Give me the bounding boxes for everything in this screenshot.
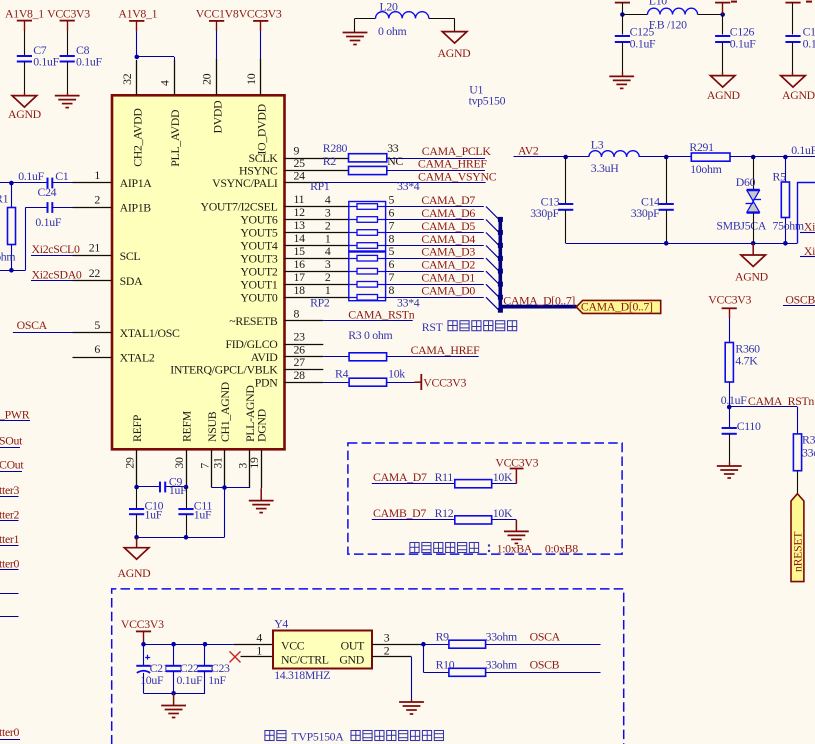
svg-text:33*4: 33*4 bbox=[397, 179, 420, 193]
note address select (chinese) bbox=[410, 542, 578, 556]
svg-text:13: 13 bbox=[294, 218, 306, 232]
power rail (L10 right) bbox=[715, 1, 737, 15]
svg-text:YOUT3: YOUT3 bbox=[240, 251, 278, 265]
svg-text:INTERQ/GPCL/VBLK: INTERQ/GPCL/VBLK bbox=[170, 363, 278, 377]
svg-text:GND: GND bbox=[339, 653, 364, 667]
wire CAMA_HREF (top) bbox=[387, 170, 485, 172]
svg-text:tter0: tter0 bbox=[0, 725, 20, 739]
resistor RP2 element 1 bbox=[325, 244, 395, 261]
no-connect X (pin1) bbox=[230, 651, 241, 662]
svg-text:R2: R2 bbox=[323, 154, 337, 168]
pin 32 bbox=[120, 60, 137, 95]
svg-text:Xi2cSCL0: Xi2cSCL0 bbox=[32, 242, 80, 256]
resistor R1 bbox=[0, 183, 16, 270]
power A1V8_1 (left) bbox=[5, 7, 44, 55]
pin 5 bbox=[73, 318, 112, 333]
node tter0 (bottom) bbox=[0, 725, 20, 739]
svg-text:CAMA_D3: CAMA_D3 bbox=[421, 245, 475, 259]
node Xi2cSDA0 bbox=[31, 268, 82, 282]
pin 17 bbox=[285, 270, 349, 285]
ground earth (caps) bbox=[161, 693, 186, 717]
svg-text:10ohm: 10ohm bbox=[690, 162, 721, 176]
wire crystal gnd bus bbox=[144, 693, 206, 695]
svg-text:AIP1A: AIP1A bbox=[120, 176, 153, 190]
resistor R3 bbox=[323, 328, 478, 361]
svg-text:0.1u: 0.1u bbox=[803, 36, 815, 50]
pin 16 bbox=[285, 257, 349, 272]
svg-text:R3 0 ohm: R3 0 ohm bbox=[348, 328, 392, 342]
ground earth (under C8) bbox=[55, 96, 80, 108]
svg-text:tter0: tter0 bbox=[0, 557, 20, 571]
svg-text:0:0xB8: 0:0xB8 bbox=[545, 542, 578, 556]
bus entry D5 bbox=[486, 233, 499, 246]
svg-text:D60: D60 bbox=[736, 175, 756, 189]
resistor RP2 element 4 bbox=[325, 283, 395, 300]
resistor R361 bbox=[793, 407, 815, 494]
svg-text:OSCB: OSCB bbox=[530, 657, 560, 671]
svg-text:10K: 10K bbox=[493, 506, 513, 520]
svg-text:1: 1 bbox=[94, 168, 100, 182]
svg-text:0.1uF: 0.1uF bbox=[791, 143, 815, 157]
wire L3-C14 bbox=[639, 156, 666, 158]
svg-text:32: 32 bbox=[120, 73, 134, 85]
svg-text:Xin: Xin bbox=[804, 220, 815, 234]
connector (right edge) bbox=[797, 182, 815, 243]
junction REFP bbox=[134, 485, 139, 490]
pin 22 bbox=[73, 266, 112, 281]
resistor RP1 element 3 bbox=[325, 218, 395, 235]
wire R5-edge bbox=[785, 156, 815, 158]
junction C11 bottom bbox=[184, 535, 189, 540]
bus entry D0 bbox=[486, 297, 499, 310]
wire Y4 pin4 bbox=[234, 631, 273, 645]
wire crystal vcc bus bbox=[144, 644, 234, 646]
svg-text:2: 2 bbox=[325, 270, 331, 284]
ground AGND (IC bottom) bbox=[118, 537, 152, 580]
resistor RP1 element 4 bbox=[325, 231, 395, 248]
svg-text:8: 8 bbox=[294, 307, 300, 321]
resistor RP1 element 2 bbox=[325, 205, 395, 222]
svg-text:7: 7 bbox=[389, 270, 395, 284]
resistor R12 bbox=[435, 506, 517, 524]
svg-text:CAMA_D2: CAMA_D2 bbox=[421, 258, 475, 272]
resistor RP1 element 1 bbox=[325, 192, 395, 209]
junction R5 bottom bbox=[783, 241, 788, 246]
capacitor C11 bbox=[178, 487, 212, 537]
svg-text:5: 5 bbox=[389, 244, 395, 258]
svg-text:VCC1V8: VCC1V8 bbox=[196, 7, 239, 21]
capacitor C7 bbox=[17, 43, 60, 95]
bus CAMA_D[0..7] vertical bbox=[498, 219, 502, 307]
svg-text:R1: R1 bbox=[0, 191, 9, 205]
bus junction D2 bbox=[498, 282, 503, 287]
svg-text:YOUT1: YOUT1 bbox=[240, 278, 278, 292]
svg-text:21: 21 bbox=[89, 241, 101, 255]
pin 24 bbox=[285, 169, 324, 183]
svg-text:0 ohm: 0 ohm bbox=[378, 24, 406, 38]
svg-text:_PWR: _PWR bbox=[0, 408, 30, 422]
ground earth (DGND) bbox=[249, 488, 274, 512]
ground AGND (L20 right) bbox=[438, 32, 472, 61]
svg-text:5: 5 bbox=[94, 318, 100, 332]
svg-text:REFP: REFP bbox=[130, 414, 144, 442]
svg-text:YOUT6: YOUT6 bbox=[240, 213, 278, 227]
junction R1 bottom bbox=[9, 268, 14, 273]
svg-text:tter1: tter1 bbox=[0, 532, 20, 546]
pin 6 bbox=[73, 342, 112, 357]
pin 3 bbox=[235, 450, 249, 488]
resistor R360 bbox=[725, 341, 760, 407]
pin 15 bbox=[285, 244, 349, 259]
pin 29 bbox=[122, 450, 136, 487]
svg-text:L20: L20 bbox=[380, 0, 399, 14]
pin 7 bbox=[197, 450, 211, 488]
bus entry D7 bbox=[486, 207, 499, 220]
power A1V8_1 (pins 32/4) bbox=[118, 7, 157, 57]
pin 10 bbox=[244, 58, 261, 95]
node CAMA_D7 (R11) bbox=[372, 470, 455, 484]
node Xi2cSCL0 bbox=[31, 242, 80, 256]
svg-text:0.1uF: 0.1uF bbox=[18, 169, 44, 183]
svg-text:VCC3V3: VCC3V3 bbox=[239, 7, 282, 21]
svg-text:330pF: 330pF bbox=[530, 206, 559, 220]
pin 14 bbox=[285, 231, 349, 245]
svg-text:0.1uF: 0.1uF bbox=[35, 215, 61, 229]
svg-text:22: 22 bbox=[89, 266, 101, 280]
node tter0 bbox=[0, 557, 20, 571]
capacitor C9 bbox=[137, 474, 187, 497]
junction L10 right bbox=[720, 12, 725, 17]
pin 23 bbox=[285, 330, 324, 345]
resistor R11 bbox=[435, 470, 517, 488]
svg-text:AIP1B: AIP1B bbox=[120, 201, 152, 215]
wire L20 to AGND bbox=[429, 18, 455, 31]
pin 1 bbox=[73, 168, 112, 183]
capacitor C23 bbox=[197, 644, 230, 693]
svg-text:4: 4 bbox=[325, 192, 331, 206]
junction CH1_AGND bbox=[222, 485, 227, 490]
wire AV2-L3 bbox=[566, 156, 589, 158]
svg-text:nRESET: nRESET bbox=[791, 531, 805, 572]
ground earth (under C125) bbox=[609, 75, 634, 77]
svg-text:6: 6 bbox=[389, 205, 395, 219]
resistor pack RP1 designator bbox=[310, 179, 420, 193]
port CAMA_D[0..7] bbox=[576, 299, 660, 313]
svg-text:XTAL2: XTAL2 bbox=[120, 350, 155, 364]
svg-text:75ohm: 75ohm bbox=[773, 218, 804, 232]
svg-text:75ohm: 75ohm bbox=[0, 250, 15, 264]
svg-text:30: 30 bbox=[172, 457, 186, 469]
pin 18 bbox=[285, 283, 349, 298]
svg-text:Xin: Xin bbox=[804, 244, 815, 258]
bus entry D4 bbox=[486, 246, 499, 259]
pin 26 bbox=[285, 342, 324, 356]
svg-text:CAMA_D6: CAMA_D6 bbox=[421, 206, 475, 220]
resistor R9 bbox=[423, 629, 600, 648]
svg-text:10: 10 bbox=[244, 73, 258, 85]
svg-text:CAMA_D[0..7]: CAMA_D[0..7] bbox=[503, 293, 575, 307]
svg-text:YOUT0: YOUT0 bbox=[240, 291, 278, 305]
node OSCB (right) bbox=[783, 293, 815, 307]
junction C14 bottom bbox=[664, 241, 669, 246]
svg-text:DVDD: DVDD bbox=[210, 100, 224, 134]
svg-text:YOUT2: YOUT2 bbox=[240, 264, 278, 278]
svg-text:A1V8_1: A1V8_1 bbox=[118, 7, 157, 21]
resistor pack RP2 designator bbox=[310, 295, 420, 309]
svg-text:3.3uH: 3.3uH bbox=[591, 161, 619, 175]
bus CAMA_D[0..7] horizontal bbox=[499, 305, 577, 309]
svg-text:L3: L3 bbox=[591, 138, 604, 152]
ground earth (Y4 gnd) bbox=[399, 657, 424, 714]
svg-text:VCC: VCC bbox=[281, 638, 305, 652]
crystal Y4 body bbox=[273, 616, 372, 682]
pin 11 bbox=[285, 192, 349, 206]
junction C13 top bbox=[563, 155, 568, 160]
pin 19 bbox=[247, 450, 262, 488]
svg-text:TVP5150A: TVP5150A bbox=[292, 730, 345, 744]
svg-text:3: 3 bbox=[325, 257, 331, 271]
junction C23 bbox=[203, 642, 208, 647]
pin 27 bbox=[285, 355, 324, 370]
svg-text:C1: C1 bbox=[55, 169, 69, 183]
junction C14 top bbox=[664, 155, 669, 160]
svg-text:VCC3V3: VCC3V3 bbox=[495, 455, 538, 469]
svg-text:18: 18 bbox=[294, 283, 306, 297]
node tter1 bbox=[0, 532, 20, 546]
svg-text:OSCA: OSCA bbox=[530, 629, 561, 643]
capacitor C21 bbox=[136, 644, 168, 693]
ground earth (R12) bbox=[504, 520, 529, 544]
svg-text:8: 8 bbox=[389, 283, 395, 297]
svg-text:Y4: Y4 bbox=[274, 616, 288, 630]
wire Y4 pin1 bbox=[241, 643, 274, 657]
capacitor C10 bbox=[129, 487, 164, 537]
wire CAMA_D2 bbox=[386, 271, 484, 273]
junction A1V8 bbox=[135, 55, 140, 60]
svg-text:tter2: tter2 bbox=[0, 507, 20, 521]
node Xin2 bbox=[800, 244, 815, 258]
capacitor C125 bbox=[615, 15, 656, 77]
svg-text:CAMA_HREF: CAMA_HREF bbox=[411, 343, 480, 357]
wire D60-R5 bbox=[753, 156, 785, 158]
bus entry D2 bbox=[486, 271, 499, 284]
svg-text:15: 15 bbox=[294, 244, 306, 258]
capacitor C126 bbox=[715, 15, 756, 76]
pin 12 bbox=[285, 205, 349, 219]
inductor L20 bbox=[376, 0, 429, 38]
note RST reset circuit (chinese) bbox=[422, 320, 517, 334]
svg-text:0.1uF: 0.1uF bbox=[76, 55, 102, 69]
pin 25 bbox=[285, 156, 349, 170]
wire CAMA_D4 bbox=[386, 245, 484, 247]
capacitor C8 bbox=[60, 43, 103, 95]
pin 2 bbox=[73, 193, 112, 208]
svg-text:11: 11 bbox=[294, 192, 305, 206]
capacitor C14 bbox=[631, 157, 674, 243]
svg-text:L10: L10 bbox=[649, 0, 668, 8]
wire CH1 down bbox=[224, 488, 226, 538]
ground AGND (AV2) bbox=[735, 243, 769, 283]
svg-text:NC: NC bbox=[387, 154, 403, 168]
svg-text:0.1uF: 0.1uF bbox=[33, 55, 59, 69]
svg-text:F.B /120: F.B /120 bbox=[649, 17, 687, 31]
resistor pack RP1 body bbox=[349, 202, 386, 252]
power VCC3V3 (R11) bbox=[495, 455, 538, 483]
pin 4 bbox=[157, 60, 174, 95]
resistor RP2 element 3 bbox=[325, 270, 395, 287]
svg-text:tter3: tter3 bbox=[0, 483, 20, 497]
svg-text:19: 19 bbox=[247, 457, 261, 469]
resistor R291 bbox=[666, 140, 753, 176]
svg-text:16: 16 bbox=[294, 257, 306, 271]
pin 21 bbox=[73, 241, 112, 256]
bus junction D5 bbox=[498, 243, 503, 248]
junction D60 bottom bbox=[751, 241, 756, 246]
bus junction D1 bbox=[498, 295, 503, 300]
capacitor C127 bbox=[785, 24, 815, 75]
svg-text:PLL_AVDD: PLL_AVDD bbox=[168, 109, 182, 167]
resistor R10 bbox=[423, 644, 600, 676]
wire Y4 pin3 bbox=[372, 631, 423, 645]
bus junction D3 bbox=[498, 269, 503, 274]
pin 30 bbox=[172, 450, 187, 487]
node OSCA bbox=[13, 318, 73, 332]
capacitor C13 bbox=[530, 157, 573, 243]
wire CAMA_D3 bbox=[386, 258, 484, 260]
svg-text:10k: 10k bbox=[388, 366, 405, 380]
svg-text:AGND: AGND bbox=[438, 46, 472, 60]
svg-text:VCC3V3: VCC3V3 bbox=[708, 293, 751, 307]
svg-text:4: 4 bbox=[157, 80, 171, 86]
ground earth (C110) bbox=[717, 465, 742, 467]
svg-text:24: 24 bbox=[294, 169, 306, 183]
node AV2 bbox=[514, 143, 566, 157]
svg-text:RST: RST bbox=[422, 320, 444, 334]
wire CAMA_D0 bbox=[386, 297, 484, 299]
resistor RP2 element 2 bbox=[325, 257, 395, 274]
svg-text:SDA: SDA bbox=[120, 274, 143, 288]
bus entry D6 bbox=[486, 220, 499, 233]
node CAMA_RSTn (right) bbox=[721, 393, 815, 408]
power VCC3V3 (pin 10) bbox=[239, 7, 282, 59]
junction R1 top bbox=[9, 181, 14, 186]
svg-text:VCC3V3: VCC3V3 bbox=[423, 375, 466, 389]
svg-text:31: 31 bbox=[210, 457, 224, 469]
svg-text:YOUT7/I2CSEL: YOUT7/I2CSEL bbox=[200, 200, 277, 214]
svg-text:0.1uF: 0.1uF bbox=[721, 393, 747, 407]
svg-text:C24: C24 bbox=[38, 185, 57, 199]
svg-text:12: 12 bbox=[294, 205, 306, 219]
svg-text:CAMB_D7: CAMB_D7 bbox=[373, 506, 426, 520]
svg-text:R12: R12 bbox=[435, 506, 454, 520]
svg-text:330pF: 330pF bbox=[631, 206, 660, 220]
wire bottom-left bbox=[0, 270, 25, 272]
svg-text:CAMA_D7: CAMA_D7 bbox=[373, 470, 427, 484]
wire CAMA_PCLK bbox=[387, 158, 485, 160]
wire AIP1A input bbox=[0, 182, 48, 184]
svg-text:RP1: RP1 bbox=[310, 179, 330, 193]
svg-text:33ohm: 33ohm bbox=[486, 657, 517, 671]
wire CAMA_VSYNC bbox=[323, 182, 485, 184]
note shared crystal (chinese) bbox=[265, 730, 444, 744]
svg-text:AGND: AGND bbox=[118, 566, 152, 580]
pin 13 bbox=[285, 218, 349, 232]
bus junction D7 bbox=[498, 217, 503, 222]
svg-text:1uF: 1uF bbox=[194, 508, 212, 522]
svg-text:IO_DVDD: IO_DVDD bbox=[254, 103, 268, 154]
svg-text:~RESETB: ~RESETB bbox=[229, 314, 278, 328]
svg-text:6: 6 bbox=[389, 257, 395, 271]
svg-text:CAMA_D1: CAMA_D1 bbox=[421, 271, 475, 285]
wire edge stub 1 bbox=[0, 593, 19, 595]
power VCC3V3 (pin28 pullup) bbox=[415, 374, 467, 390]
junction REFM bbox=[184, 485, 189, 490]
svg-text:33oh: 33oh bbox=[802, 446, 815, 460]
op-amp U1 tvp5150 body bbox=[112, 95, 285, 449]
svg-text:YOUT5: YOUT5 bbox=[240, 226, 278, 240]
junction R5 top bbox=[783, 155, 788, 160]
ground earth (L20 left) bbox=[343, 18, 376, 44]
svg-text:XTAL1/OSC: XTAL1/OSC bbox=[120, 326, 180, 340]
svg-text:VSYNC/PALI: VSYNC/PALI bbox=[212, 176, 278, 190]
dashed box address select bbox=[348, 443, 622, 554]
svg-text:7: 7 bbox=[197, 463, 211, 469]
dashed box crystal bbox=[112, 589, 624, 744]
pin 31 bbox=[210, 450, 224, 488]
svg-text:tvp5150: tvp5150 bbox=[469, 94, 506, 108]
junction C22 bbox=[171, 642, 176, 647]
pin 28 bbox=[285, 368, 324, 383]
bus junction D0 bbox=[498, 308, 503, 313]
port nRESET bbox=[791, 494, 805, 582]
svg-text:Xi2cSDA0: Xi2cSDA0 bbox=[32, 268, 82, 282]
svg-text:SMBJ5CA: SMBJ5CA bbox=[716, 218, 766, 232]
svg-text:20: 20 bbox=[200, 73, 214, 85]
capacitor C22 bbox=[166, 644, 203, 693]
bus junction D4 bbox=[498, 256, 503, 261]
power rail (L10 left) bbox=[615, 3, 630, 15]
wire CAMA_D7 bbox=[386, 206, 484, 208]
svg-text:29: 29 bbox=[122, 457, 136, 469]
svg-text:28: 28 bbox=[294, 368, 306, 382]
svg-text:1:0xBA: 1:0xBA bbox=[497, 542, 533, 556]
svg-text:CAMA_D[0..7]: CAMA_D[0..7] bbox=[581, 299, 653, 313]
junction C21 bbox=[141, 642, 146, 647]
resistor pack RP2 body bbox=[349, 252, 386, 301]
svg-text:DGND: DGND bbox=[255, 408, 269, 442]
capacitor C24 bbox=[25, 185, 72, 270]
pin 8 bbox=[285, 307, 324, 321]
inductor L10 bbox=[622, 0, 722, 31]
diode D60 SMBJ5CA bbox=[716, 157, 766, 243]
junction OSC split bbox=[421, 642, 426, 647]
svg-text:CH1_AGND: CH1_AGND bbox=[218, 381, 232, 442]
svg-text:R291: R291 bbox=[689, 140, 714, 154]
bus entry D1 bbox=[486, 284, 499, 297]
bus junction D6 bbox=[498, 230, 503, 235]
svg-text:4.7K: 4.7K bbox=[735, 353, 758, 367]
svg-text:AGND: AGND bbox=[8, 107, 42, 121]
svg-text:PDN: PDN bbox=[255, 375, 278, 389]
svg-text:R11: R11 bbox=[435, 470, 454, 484]
node PWR bbox=[0, 408, 30, 422]
svg-text:R4: R4 bbox=[335, 366, 349, 380]
svg-text:AV2: AV2 bbox=[518, 143, 539, 157]
resistor R4 bbox=[323, 366, 414, 386]
wire CAMA_D1 bbox=[386, 284, 484, 286]
svg-text:7: 7 bbox=[389, 218, 395, 232]
svg-text:SOut: SOut bbox=[0, 433, 23, 447]
